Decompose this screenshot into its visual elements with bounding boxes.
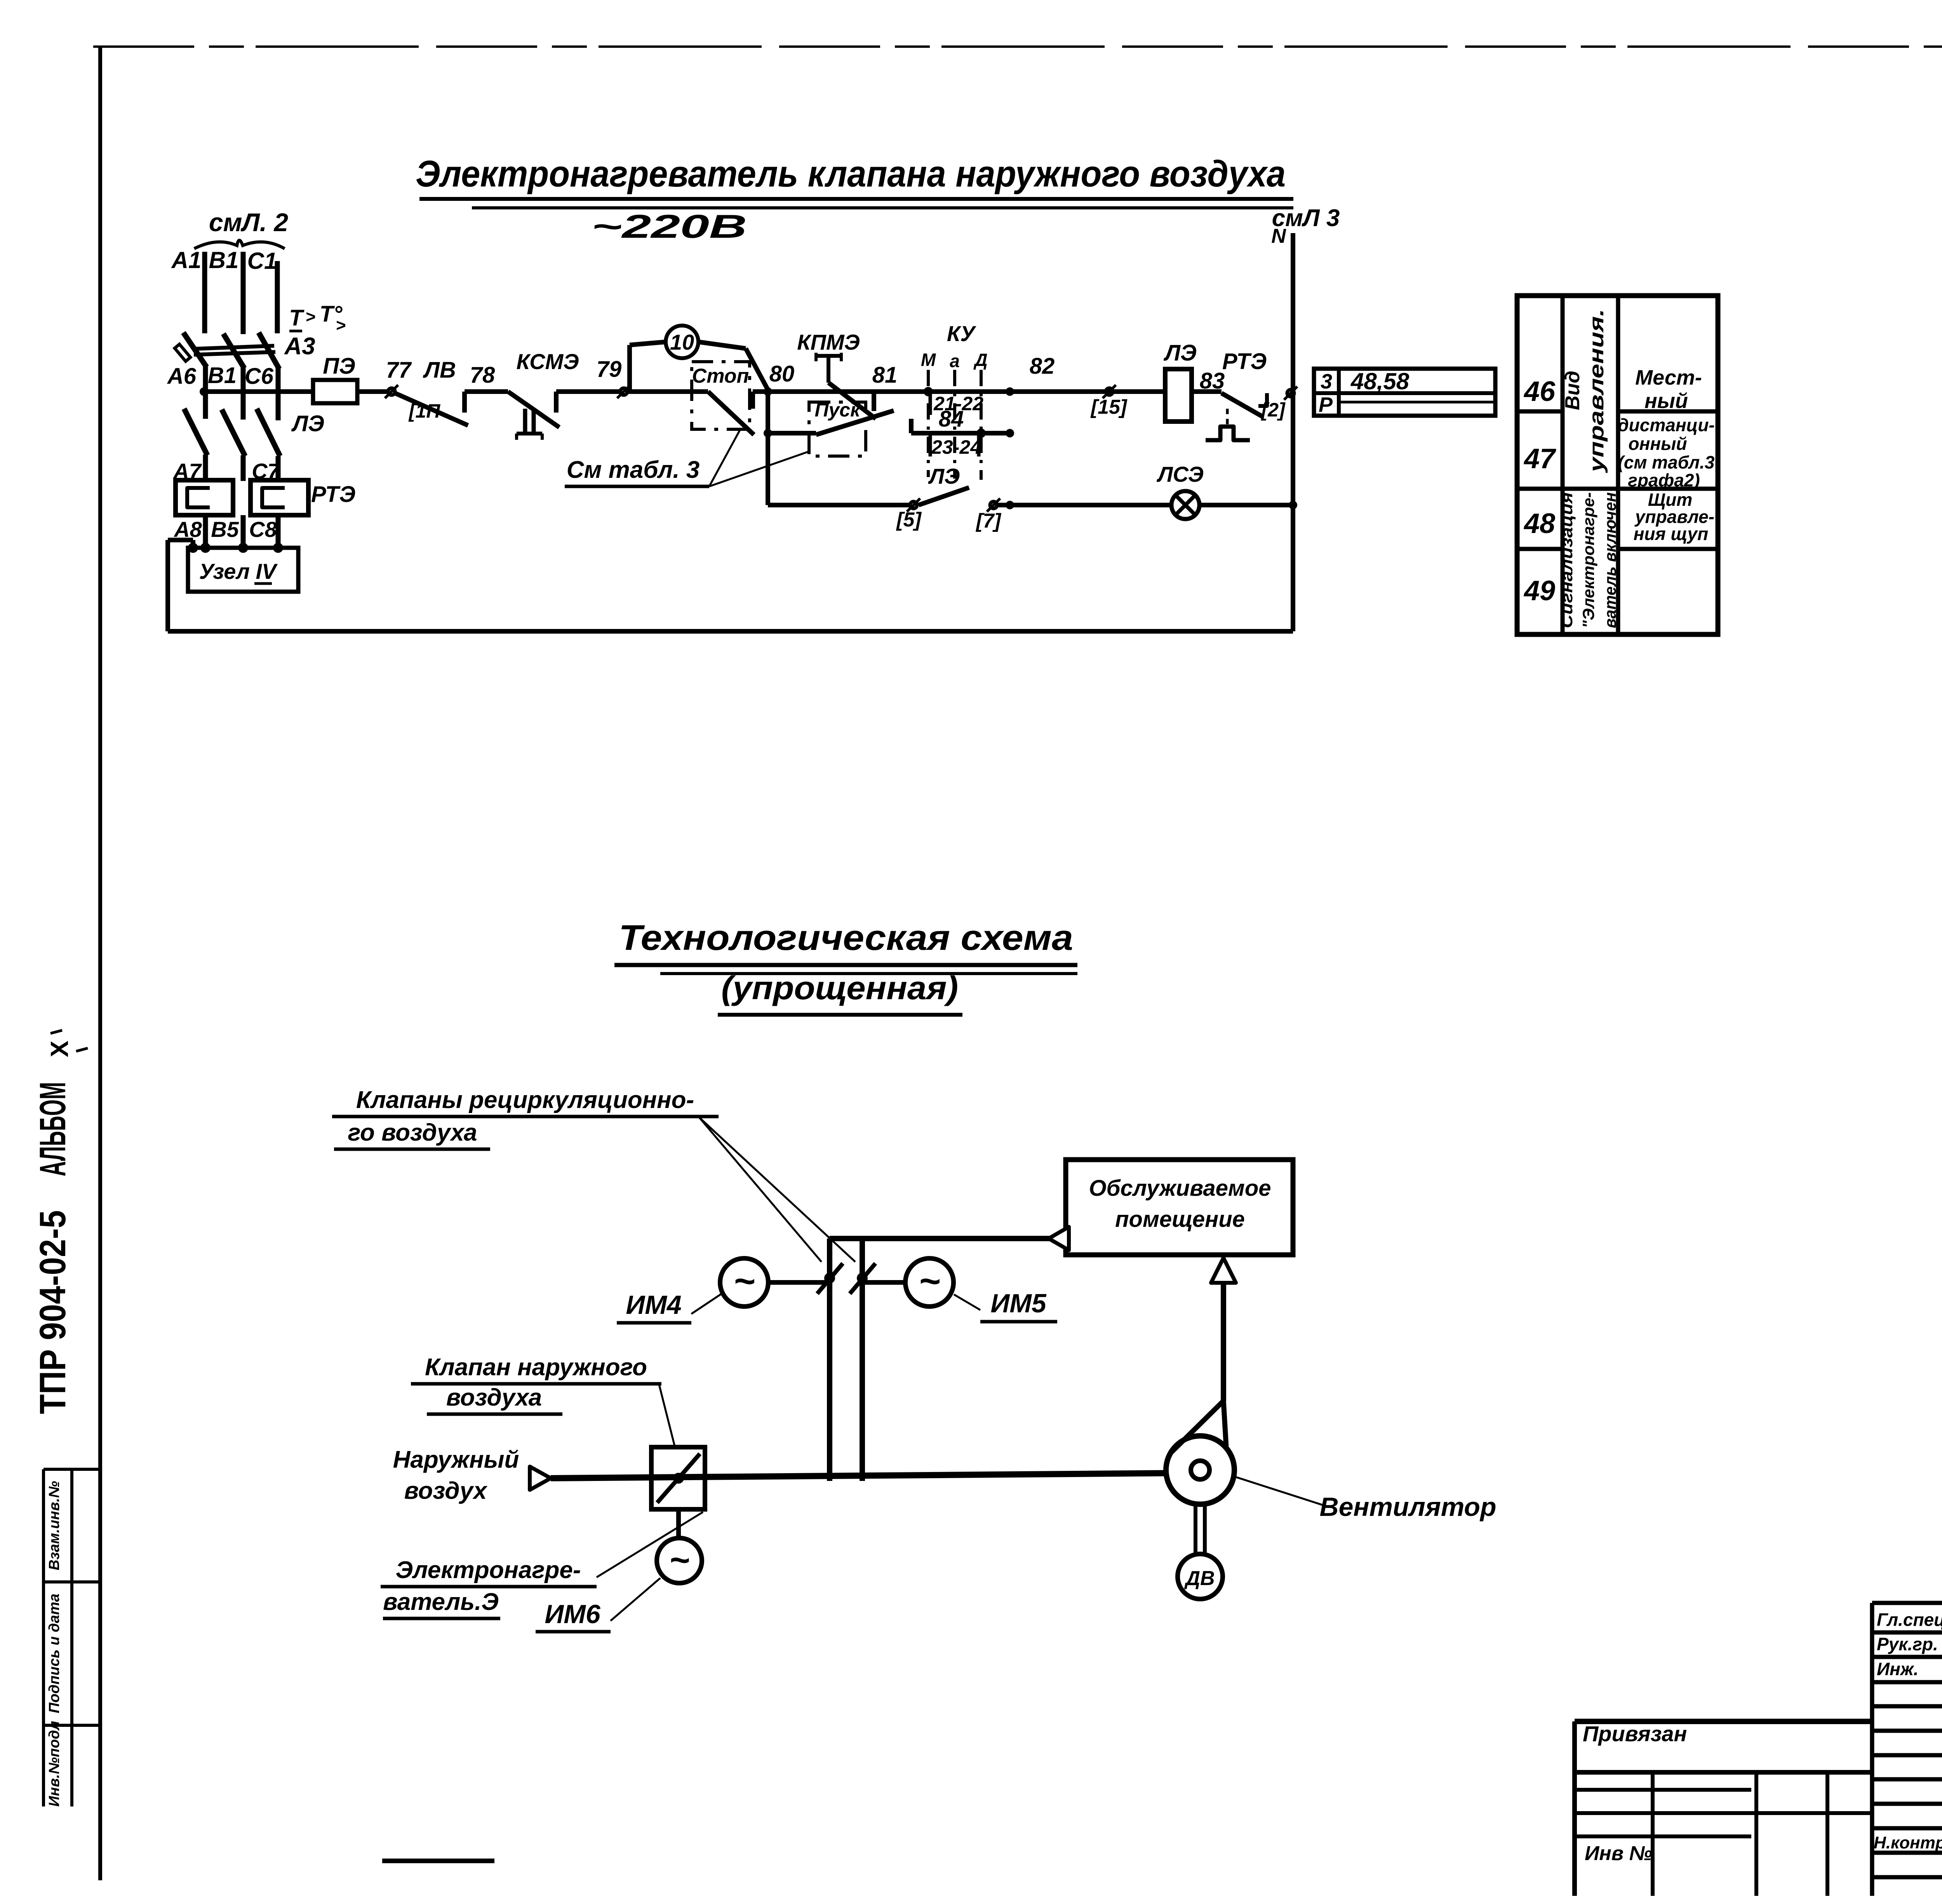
svg-text:А1: А1	[171, 247, 202, 273]
svg-text:КПМЭ: КПМЭ	[797, 330, 860, 354]
svg-text:ПЭ: ПЭ	[323, 354, 355, 379]
svg-text:Вид: Вид	[1561, 371, 1584, 410]
svg-text:X: X	[45, 1040, 73, 1057]
svg-text:управления.: управления.	[1585, 309, 1608, 474]
svg-text:РТЭ: РТЭ	[1222, 349, 1267, 374]
svg-text:ТПР 904-02-5: ТПР 904-02-5	[32, 1210, 73, 1414]
svg-text:Обслуживаемое: Обслуживаемое	[1089, 1176, 1271, 1201]
svg-text:81: 81	[872, 362, 898, 388]
svg-text:А3: А3	[284, 333, 315, 360]
svg-text:РТЭ: РТЭ	[311, 482, 355, 507]
svg-text:Клапан наружного: Клапан наружного	[425, 1354, 647, 1381]
svg-text:84: 84	[939, 406, 964, 432]
svg-text:[7]: [7]	[975, 510, 1001, 532]
svg-text:воздуха: воздуха	[446, 1384, 542, 1411]
svg-text:46: 46	[1523, 376, 1556, 407]
svg-text:Стоп: Стоп	[692, 365, 749, 387]
svg-text:С1: С1	[247, 248, 277, 274]
svg-text:Гл.спец.: Гл.спец.	[1877, 1610, 1942, 1630]
svg-text:Электронагре-: Электронагре-	[395, 1557, 581, 1583]
svg-text:ИМ4: ИМ4	[626, 1290, 681, 1320]
svg-text:10: 10	[670, 330, 694, 354]
svg-text:Инв.№подл: Инв.№подл	[46, 1721, 63, 1807]
svg-text:~: ~	[919, 1261, 940, 1302]
svg-text:ИМ6: ИМ6	[545, 1599, 601, 1629]
svg-text:Узел IV: Узел IV	[199, 559, 278, 584]
svg-text:ный: ный	[1644, 389, 1688, 413]
svg-text:48,58: 48,58	[1350, 368, 1410, 394]
svg-text:С6: С6	[245, 364, 274, 389]
svg-text:23-24: 23-24	[931, 436, 981, 458]
svg-text:82: 82	[1030, 354, 1055, 379]
svg-text:ния щуп: ния щуп	[1634, 524, 1708, 544]
svg-text:В1: В1	[208, 363, 237, 388]
svg-text:ЛВ: ЛВ	[423, 357, 456, 383]
svg-text:~: ~	[733, 1261, 755, 1302]
svg-text:ЛЭ: ЛЭ	[291, 411, 324, 436]
svg-text:Н.контр.: Н.контр.	[1874, 1833, 1942, 1852]
svg-text:48: 48	[1523, 508, 1555, 539]
svg-text:ЛЭ: ЛЭ	[1163, 340, 1197, 366]
svg-text:78: 78	[470, 362, 495, 388]
svg-text:С8: С8	[249, 517, 277, 542]
svg-text:Мест-: Мест-	[1635, 366, 1702, 389]
svg-text:~: ~	[669, 1541, 690, 1580]
svg-text:[2]: [2]	[1260, 399, 1286, 421]
svg-text:КСМЭ: КСМЭ	[516, 349, 579, 374]
svg-text:В5: В5	[211, 517, 239, 542]
svg-text:N: N	[1271, 225, 1286, 247]
svg-text:ватель.Э: ватель.Э	[383, 1589, 499, 1615]
svg-text:Наружный: Наружный	[393, 1446, 519, 1473]
svg-text:47: 47	[1523, 443, 1556, 474]
svg-text:3: 3	[1321, 370, 1332, 393]
svg-text:См табл. 3: См табл. 3	[567, 456, 700, 483]
svg-text:КУ: КУ	[947, 321, 976, 346]
svg-text:"Электронагре-: "Электронагре-	[1579, 492, 1597, 628]
svg-text:АЛЬБОМ: АЛЬБОМ	[32, 1082, 73, 1176]
svg-text:Сигнализация: Сигнализация	[1557, 492, 1576, 628]
svg-text:М: М	[921, 350, 936, 370]
svg-text:49: 49	[1523, 575, 1555, 606]
svg-text:77: 77	[386, 357, 412, 383]
svg-text:онный: онный	[1628, 434, 1687, 454]
svg-text:~220В: ~220В	[592, 208, 747, 245]
svg-text:Технологическая схема: Технологическая схема	[619, 918, 1073, 958]
svg-text:В1: В1	[209, 247, 239, 273]
svg-text:Пуск: Пуск	[815, 399, 861, 421]
svg-text:ватель включен: ватель включен	[1601, 492, 1619, 628]
svg-text:дистанци-: дистанци-	[1618, 415, 1715, 435]
svg-text:Р: Р	[1319, 393, 1333, 416]
svg-text:80: 80	[769, 361, 795, 387]
svg-text:воздух: воздух	[404, 1477, 488, 1504]
svg-text:ИМ5: ИМ5	[990, 1289, 1047, 1318]
svg-text:(упрощенная): (упрощенная)	[721, 970, 958, 1006]
svg-text:[1П: [1П	[408, 400, 440, 422]
svg-text:Вентилятор: Вентилятор	[1320, 1492, 1497, 1522]
svg-text:Взам.инв.№: Взам.инв.№	[46, 1481, 63, 1570]
svg-text:[5]: [5]	[896, 509, 922, 531]
svg-text:ЛЭ: ЛЭ	[928, 464, 960, 488]
svg-text:ЛСЭ: ЛСЭ	[1156, 462, 1204, 486]
svg-text:Электронагреватель клапана н: Электронагреватель клапана наружного воз…	[416, 153, 1286, 195]
svg-text:графа2): графа2)	[1628, 470, 1700, 490]
svg-text:помещение: помещение	[1115, 1207, 1245, 1232]
svg-text:[15]: [15]	[1090, 396, 1128, 418]
svg-text:Д: Д	[973, 350, 987, 370]
svg-text:Клапаны рециркуляционно-: Клапаны рециркуляционно-	[356, 1087, 694, 1113]
svg-text:Инв №: Инв №	[1585, 1842, 1652, 1865]
svg-text:˃: ˃	[336, 316, 346, 335]
svg-text:(см табл.3: (см табл.3	[1618, 452, 1714, 472]
svg-text:Привязан: Привязан	[1583, 1721, 1687, 1746]
svg-text:Инж.: Инж.	[1877, 1659, 1919, 1679]
svg-text:ДВ: ДВ	[1184, 1567, 1215, 1590]
svg-text:79: 79	[597, 357, 622, 382]
svg-text:Т: Т	[289, 305, 305, 331]
svg-text:83: 83	[1200, 368, 1225, 394]
svg-text:Подпись и дата: Подпись и дата	[46, 1594, 63, 1713]
svg-text:˃: ˃	[306, 307, 316, 326]
svg-text:смЛ. 2: смЛ. 2	[209, 208, 289, 237]
svg-text:А6: А6	[167, 364, 197, 389]
svg-text:го воздуха: го воздуха	[348, 1119, 477, 1146]
svg-text:Рук.гр.: Рук.гр.	[1877, 1634, 1938, 1654]
svg-text:а: а	[950, 351, 960, 371]
